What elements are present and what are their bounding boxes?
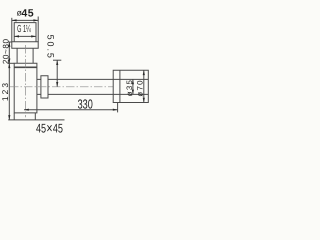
arrow dia35 top [132, 79, 134, 84]
svg-text:50.5: 50.5 [45, 35, 55, 60]
dia70 dimension line [143, 70, 145, 102]
svg-text:20~80: 20~80 [1, 38, 10, 64]
arrow 330 left [24, 109, 29, 111]
arrow 123 bottom [8, 115, 10, 120]
arrow dia45 right [33, 19, 38, 21]
arrow 123 top [8, 63, 10, 68]
dim 330 right extension [117, 103, 119, 112]
dim 330 line [24, 109, 118, 111]
dia45 extension line left [11, 18, 13, 42]
dia45 extension line right [37, 17, 39, 42]
trap bottom cap [14, 113, 35, 120]
arrow G left [14, 35, 19, 37]
dim 50.5 line [56, 60, 58, 87]
G dimension line [14, 35, 36, 37]
trap body cup [14, 63, 37, 113]
arrow 50.5 top [56, 60, 58, 65]
dim 20-80 line [8, 42, 10, 63]
pipe body-to-nut [37, 79, 41, 94]
horizontal centerline [10, 86, 113, 88]
arrow dia35 bottom [132, 90, 134, 95]
cap bottom and 45x45 note line [8, 119, 64, 121]
dim ext tick flange top [8, 41, 12, 43]
dim 123 line [8, 63, 10, 120]
arrow G right [31, 35, 36, 37]
horizontal pipe top [48, 78, 148, 80]
horizontal pipe bottom [48, 93, 148, 95]
dim ext tick body top [8, 62, 14, 64]
svg-text:45: 45 [21, 8, 34, 20]
svg-text:ø70: ø70 [135, 79, 144, 97]
svg-text:330: 330 [78, 96, 93, 111]
arrow dia70 top [143, 70, 145, 75]
dim 50.5 tick [53, 59, 61, 61]
arrow 50.5 bottom [56, 82, 58, 87]
svg-text:G 1¼: G 1¼ [17, 24, 31, 35]
arrow 20-80 bottom [8, 59, 10, 64]
wall flange right edge [119, 70, 121, 102]
dia45 dimension line [12, 19, 38, 21]
compression nut [41, 76, 48, 98]
escutcheon flange [12, 42, 38, 48]
pipe below flange [17, 48, 33, 63]
body lid thick line [14, 66, 37, 68]
body vertical centerline [25, 45, 27, 117]
wall flange outer rect [113, 70, 148, 102]
arrow 20-80 top [8, 42, 10, 47]
arrow 330 right [113, 109, 118, 111]
svg-text:45×45: 45×45 [36, 121, 63, 137]
arrow dia45 left [12, 19, 17, 21]
svg-text:ø35: ø35 [125, 79, 134, 97]
tailpiece G1-1/4 pipe [14, 23, 36, 42]
dia35 dimension line [132, 79, 134, 94]
arrow dia70 bottom [143, 98, 145, 103]
svg-text:123: 123 [0, 81, 10, 101]
